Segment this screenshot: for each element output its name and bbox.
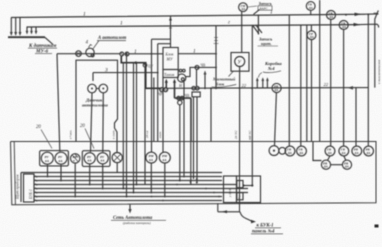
bold line y98 <box>175 88 192 141</box>
wire from line1 to zapis label <box>257 15 259 35</box>
relay box 2 <box>82 151 110 167</box>
leader to label <box>45 37 53 44</box>
bold path from K1 <box>121 56 160 88</box>
wire y43.7 <box>158 43 171 45</box>
circle GV2 on line2 <box>339 21 348 30</box>
circle GV1 on line1 <box>327 11 336 20</box>
wire x356 <box>355 88 357 147</box>
valve V3 ЧР bold pair <box>160 88 168 92</box>
partition + sub circles <box>313 142 322 161</box>
relay R5 <box>97 153 108 164</box>
bus bar <box>8 36 45 38</box>
labels 20 with leaders <box>36 124 94 149</box>
korobka label <box>259 61 283 78</box>
GM stem <box>241 12 243 53</box>
junction dots on rows <box>124 176 220 202</box>
connector above H <box>179 69 182 72</box>
bottom exit right <box>218 203 240 212</box>
paper grain <box>0 0 1 1</box>
B5 stem down <box>239 67 241 142</box>
motor circle M1 <box>76 51 82 57</box>
right row circles <box>285 146 295 156</box>
wire x375 with rotated label <box>375 11 379 88</box>
relay R6 crossed <box>112 153 122 163</box>
zapis bars label <box>248 1 272 10</box>
x252 to rows <box>251 142 253 186</box>
box B5 with circle <box>231 53 249 72</box>
wire left drop to relay <box>57 54 60 152</box>
arrow head on line22 <box>348 86 354 90</box>
wire x319.5 <box>319 0 321 142</box>
circle C6 below line2 <box>307 31 316 40</box>
circle C5 <box>178 100 182 104</box>
box B2 under connector <box>192 92 200 97</box>
vertical x211 <box>210 88 212 141</box>
row start ticks <box>35 176 37 202</box>
BUK-1 box <box>24 174 35 202</box>
rotated wire labels <box>69 130 253 141</box>
wire arrows to sensors group1 <box>11 17 20 34</box>
autopilot sensor circles <box>88 84 97 93</box>
big bottom box <box>11 142 377 205</box>
GM circle top <box>239 3 248 12</box>
bottom exit avtopilot net <box>129 205 131 211</box>
wire x300.5 from line2 <box>300 25 302 146</box>
bottom right boxes BUK-2 <box>224 176 237 203</box>
RV circle on line 22 <box>272 83 281 92</box>
wire to block <box>129 53 163 55</box>
drop from valve line <box>196 69 198 86</box>
circle C7 above line1 <box>306 2 315 11</box>
pump circle M2 <box>86 48 94 56</box>
x239.5 continues down <box>239 142 241 212</box>
wire x289 from line1 <box>288 15 290 147</box>
relay R3 <box>71 154 80 163</box>
wire y39.2 <box>152 38 171 40</box>
junction dots on line22 <box>204 87 206 89</box>
wire vertical x216 <box>215 26 217 89</box>
arrowheads on line1,2 at right <box>355 13 362 16</box>
vertical x252 <box>251 25 253 142</box>
magnit block label <box>212 77 236 88</box>
sensor enclosure <box>76 60 118 152</box>
relay R4 <box>84 153 95 164</box>
vertical x205 with up arrow <box>204 73 206 88</box>
relay R2 <box>55 152 67 164</box>
wire node 3 line <box>93 72 158 74</box>
relay R7 <box>146 152 157 163</box>
wires near H <box>186 67 216 76</box>
wire bus line 1 top <box>11 14 365 17</box>
wire main horizontal y53.5 <box>57 53 120 55</box>
wire feed from line1 to block <box>170 16 172 48</box>
connector pair on bold line <box>177 96 180 99</box>
RV stem to pair <box>275 93 277 146</box>
korobka arrows <box>257 80 267 88</box>
label datchik avtopilota <box>82 98 108 108</box>
relay R8 <box>159 152 170 163</box>
H circle <box>178 74 186 82</box>
x193 x196.5 from B2 <box>194 97 198 183</box>
inner line terminal top <box>21 172 222 174</box>
connector K2 on line22 <box>192 86 196 90</box>
relay R1 <box>41 152 53 164</box>
wire bus line 2 <box>27 25 361 27</box>
tachometer box <box>163 70 178 78</box>
x190.8 <box>190 142 192 185</box>
center verticals to box <box>122 63 124 189</box>
block MU-6 box <box>163 48 178 70</box>
terminal rows <box>34 177 248 201</box>
relay scribbles <box>45 154 168 163</box>
wire x368.5 corner from line1 <box>367 14 369 146</box>
relay box 1 <box>40 151 69 166</box>
scan speck bottom right <box>375 225 379 228</box>
bold arrows up into tach box <box>166 82 174 89</box>
wire from block right, line 1 segment <box>178 53 216 55</box>
zapis shchit label + fork <box>258 37 279 47</box>
valve V2 <box>143 63 147 67</box>
x184 <box>183 82 185 177</box>
x179.8 long <box>179 142 181 181</box>
label A avtopilot <box>93 36 127 50</box>
relay stubs to rows <box>48 163 165 197</box>
wire x307 <box>306 25 308 142</box>
long line 22 <box>166 87 369 90</box>
label K datchikam MU-6 <box>28 44 57 55</box>
connector K1 <box>120 52 129 56</box>
wire sensor drops <box>91 93 104 152</box>
pair circles left <box>269 146 279 156</box>
wire arrows to sensors group2 <box>27 27 36 33</box>
valve V5 <box>195 65 199 69</box>
